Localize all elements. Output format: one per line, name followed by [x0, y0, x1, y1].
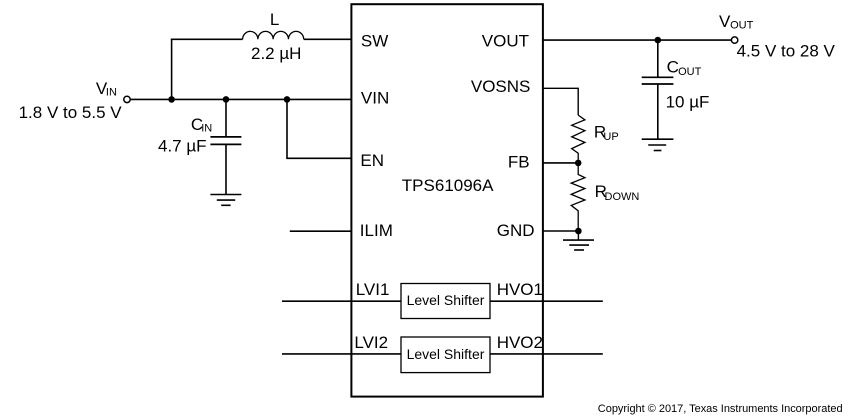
wire ILIM stub — [290, 230, 352, 232]
node junction VIN rail / EN branch — [284, 96, 291, 103]
svg-text:4.5 V to 28 V: 4.5 V to 28 V — [737, 42, 836, 61]
wire LVI2 — [282, 353, 401, 355]
svg-text:VOSNS: VOSNS — [471, 77, 531, 96]
wire GND pin — [543, 230, 578, 232]
svg-text:ILIM: ILIM — [360, 221, 393, 240]
resistor RUP — [572, 115, 619, 163]
svg-text:FB: FB — [508, 153, 530, 172]
svg-text:LVI1: LVI1 — [356, 280, 390, 299]
wire HVO1 — [490, 300, 603, 302]
resistor RDOWN — [571, 163, 639, 231]
ground below COUT — [642, 139, 674, 150]
node junction VOUT rail / COUT — [655, 37, 662, 44]
svg-text:EN: EN — [360, 151, 384, 170]
svg-text:UP: UP — [603, 131, 618, 143]
svg-text:L: L — [270, 10, 279, 29]
wire VOSNS — [543, 88, 578, 115]
svg-text:LVI2: LVI2 — [354, 333, 388, 352]
wire VIN rail — [130, 98, 351, 100]
wire SW vertical from VIN rail — [171, 39, 173, 99]
svg-text:VIN: VIN — [361, 89, 389, 108]
level shifter box 2 — [401, 337, 490, 373]
level shifter box 1 — [401, 284, 490, 319]
svg-text:4.7 µF: 4.7 µF — [158, 137, 207, 156]
svg-text:OUT: OUT — [730, 20, 754, 32]
svg-text:OUT: OUT — [678, 66, 702, 78]
svg-text:IN: IN — [201, 123, 212, 135]
wire HVO2 — [490, 353, 603, 355]
capacitor COUT 10 uF — [642, 40, 710, 139]
node junction VIN rail / CIN — [223, 96, 230, 103]
svg-text:1.8 V to 5.5 V: 1.8 V to 5.5 V — [19, 103, 123, 122]
node VOUT label — [719, 12, 836, 61]
svg-text:Level Shifter: Level Shifter — [407, 346, 485, 362]
IC U1 TPS61096A body — [351, 4, 543, 396]
node junction VIN rail / SW branch — [168, 96, 175, 103]
svg-text:TPS61096A: TPS61096A — [402, 176, 494, 195]
wire FB — [543, 162, 578, 164]
svg-text:IN: IN — [106, 86, 117, 98]
node VIN terminal — [124, 96, 130, 102]
node VOUT terminal — [731, 37, 737, 43]
svg-text:VOUT: VOUT — [482, 32, 529, 51]
inductor L 2.2 uH — [243, 10, 304, 63]
wire VOUT rail — [543, 39, 731, 41]
svg-text:DOWN: DOWN — [605, 191, 640, 203]
svg-text:SW: SW — [361, 32, 388, 51]
svg-text:GND: GND — [497, 221, 535, 240]
svg-text:Copyright © 2017, Texas Instru: Copyright © 2017, Texas Instruments Inco… — [598, 403, 843, 415]
wire SW horizontal left segment — [171, 38, 243, 40]
ground below GND pin — [563, 240, 594, 250]
node junction FB — [575, 160, 582, 167]
svg-text:HVO1: HVO1 — [497, 280, 543, 299]
svg-text:2.2 µH: 2.2 µH — [251, 44, 301, 63]
wire GND lead down — [577, 231, 579, 240]
capacitor CIN 4.7 uF — [158, 99, 241, 194]
wire LVI1 — [282, 300, 401, 302]
node junction GND — [575, 228, 582, 235]
svg-text:HVO2: HVO2 — [497, 333, 543, 352]
wire EN branch — [287, 99, 351, 158]
svg-text:10 µF: 10 µF — [666, 92, 710, 111]
node VIN label — [19, 79, 123, 122]
wire SW horizontal right segment to pin SW — [304, 38, 352, 40]
svg-text:Level Shifter: Level Shifter — [407, 292, 485, 308]
svg-text:C: C — [667, 58, 679, 77]
ground below CIN — [210, 195, 241, 206]
